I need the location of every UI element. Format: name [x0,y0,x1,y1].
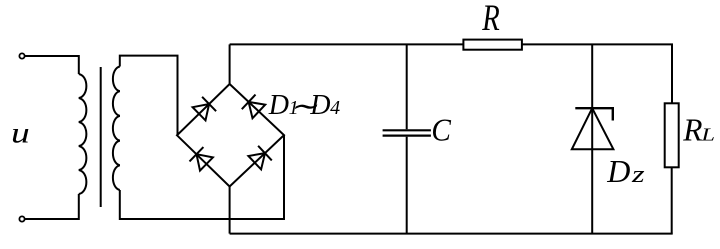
svg-text:D: D [268,90,289,121]
svg-text:R: R [682,113,702,148]
svg-text:L: L [700,125,715,145]
svg-text:C: C [431,113,451,148]
svg-text:D: D [606,153,630,189]
svg-text:D: D [309,90,330,121]
svg-text:u: u [11,117,30,150]
svg-text:z: z [631,162,645,188]
svg-text:4: 4 [330,97,340,119]
svg-text:R: R [481,0,499,39]
